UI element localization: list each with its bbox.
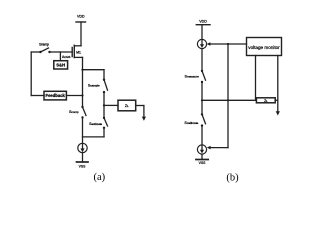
svg-text:(b): (b): [226, 172, 239, 183]
svg-text:voltage monitor: voltage monitor: [248, 45, 280, 50]
svg-text:VSS: VSS: [79, 165, 87, 169]
svg-text:Feedback: Feedback: [46, 93, 66, 98]
svg-text:Scomp: Scomp: [69, 110, 79, 114]
svg-text:VDD: VDD: [77, 15, 85, 19]
svg-text:S&H: S&H: [56, 63, 65, 68]
svg-text:Smeasure: Smeasure: [184, 75, 199, 79]
svg-text:Sramp: Sramp: [39, 41, 49, 46]
svg-text:(a): (a): [93, 172, 105, 183]
svg-text:Scalibrate: Scalibrate: [184, 121, 198, 125]
svg-text:Sestimate: Sestimate: [89, 122, 102, 126]
svg-text:Ssample: Ssample: [88, 83, 100, 87]
svg-text:ZL: ZL: [264, 99, 268, 103]
svg-text:ZL: ZL: [125, 104, 129, 108]
svg-text:M1: M1: [76, 50, 81, 54]
svg-text:VDD: VDD: [199, 20, 207, 24]
svg-text:ACGS: ACGS: [62, 55, 71, 59]
svg-text:VSS: VSS: [199, 161, 207, 165]
